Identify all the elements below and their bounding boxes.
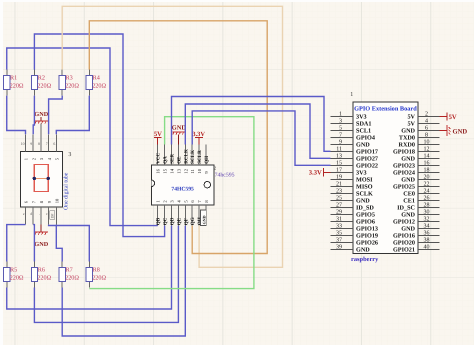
svg-text:3V3: 3V3 bbox=[356, 114, 367, 121]
svg-text:220Ω: 220Ω bbox=[92, 83, 106, 90]
svg-text:CE1: CE1 bbox=[403, 198, 415, 205]
wire R4 bottom to display pin5 (blue) bbox=[56, 96, 89, 135]
svg-text:QH: QH bbox=[204, 156, 210, 164]
svg-text:12: 12 bbox=[183, 168, 188, 173]
svg-text:GND: GND bbox=[356, 198, 370, 205]
svg-text:SCLK: SCLK bbox=[356, 191, 373, 198]
svg-text:QE: QE bbox=[176, 217, 182, 225]
GPIO pin 10 RXD0 bbox=[418, 143, 440, 145]
svg-text:MOSI: MOSI bbox=[356, 177, 373, 184]
GPIO pin 28 ID_SC bbox=[418, 206, 440, 208]
svg-text:QF: QF bbox=[183, 218, 189, 225]
svg-text:220Ω: 220Ω bbox=[65, 275, 79, 282]
GPIO pin 33 GPIO13 bbox=[331, 227, 354, 229]
svg-text:VCC: VCC bbox=[156, 152, 162, 163]
svg-text:1: 1 bbox=[350, 92, 353, 98]
GPIO pin 19 MOSI bbox=[331, 178, 354, 180]
svg-text:GPIO26: GPIO26 bbox=[356, 240, 378, 247]
svg-text:9: 9 bbox=[30, 142, 32, 146]
GPIO pin 37 GPIO26 bbox=[331, 241, 354, 243]
svg-text:GPIO19: GPIO19 bbox=[356, 233, 378, 240]
GPIO pin 1 3V3 bbox=[331, 115, 354, 117]
svg-text:GND: GND bbox=[401, 226, 415, 233]
svg-text:GND: GND bbox=[356, 247, 370, 254]
GPIO pin 25 GND bbox=[331, 199, 354, 201]
svg-text:29: 29 bbox=[336, 210, 342, 216]
svg-text:GPIO27: GPIO27 bbox=[356, 156, 378, 163]
svg-text:SCL1: SCL1 bbox=[356, 128, 371, 135]
GPIO pin 13 GPIO27 bbox=[331, 157, 354, 159]
svg-text:4: 4 bbox=[425, 119, 428, 125]
svg-text:GPIO16: GPIO16 bbox=[393, 233, 415, 240]
svg-text:26: 26 bbox=[424, 196, 430, 202]
svg-text:GND: GND bbox=[401, 128, 415, 135]
svg-text:21: 21 bbox=[336, 182, 342, 188]
svg-text:GPIO18: GPIO18 bbox=[393, 149, 415, 156]
svg-text:10: 10 bbox=[197, 168, 202, 173]
GPIO pin 22 GPIO25 bbox=[418, 185, 440, 187]
svg-text:30: 30 bbox=[424, 210, 430, 216]
svg-text:5V: 5V bbox=[407, 114, 415, 121]
GPIO pin 14 GND bbox=[418, 157, 440, 159]
GPIO pin 3 SDA1 bbox=[331, 122, 354, 124]
svg-text:1: 1 bbox=[339, 112, 342, 118]
GPIO pin 17 3V3 bbox=[331, 171, 354, 173]
svg-text:19: 19 bbox=[336, 175, 342, 181]
svg-text:23: 23 bbox=[336, 189, 342, 195]
resistor R1 220ohm bbox=[4, 70, 24, 96]
svg-text:3: 3 bbox=[339, 119, 342, 125]
svg-text:R3: R3 bbox=[66, 75, 73, 82]
wire R1 to 595 QB (blue) bbox=[7, 48, 158, 226]
wire R4 to 595 QG (orange) bbox=[89, 21, 267, 254]
svg-text:10: 10 bbox=[55, 198, 60, 203]
svg-text:15: 15 bbox=[163, 168, 168, 173]
svg-text:R8: R8 bbox=[93, 266, 100, 273]
svg-text:10: 10 bbox=[424, 140, 430, 146]
svg-text:GPIO24: GPIO24 bbox=[393, 170, 415, 177]
svg-text:RCLK: RCLK bbox=[183, 149, 189, 164]
wire display pin9 to R8 (blue) bbox=[49, 225, 90, 262]
GPIO pin 7 GPIO4 bbox=[331, 136, 354, 138]
svg-text:20: 20 bbox=[424, 175, 430, 181]
GPIO pin 26 CE1 bbox=[418, 199, 440, 201]
svg-text:OE: OE bbox=[176, 156, 182, 164]
GPIO pin 15 GPIO22 bbox=[331, 164, 354, 166]
GPIO pin 39 GND bbox=[331, 248, 354, 250]
GPIO pin 12 GPIO18 bbox=[418, 150, 440, 152]
svg-text:3: 3 bbox=[68, 152, 71, 158]
svg-text:7: 7 bbox=[339, 133, 342, 139]
svg-text:11: 11 bbox=[336, 147, 342, 153]
GPIO pin 23 SCLK bbox=[331, 192, 354, 194]
GPIO pin 30 GND bbox=[418, 213, 440, 215]
svg-text:13: 13 bbox=[176, 168, 181, 173]
svg-text:.: . bbox=[39, 212, 40, 216]
GPIO pin 27 ID_SD bbox=[331, 206, 354, 208]
svg-text:GND: GND bbox=[401, 156, 415, 163]
svg-text:GPIO23: GPIO23 bbox=[393, 163, 415, 170]
svg-text:220Ω: 220Ω bbox=[37, 275, 51, 282]
resistor R3 220ohm bbox=[59, 70, 79, 96]
svg-text:28: 28 bbox=[424, 203, 430, 209]
svg-text:GPIO4: GPIO4 bbox=[356, 135, 375, 142]
GPIO pin 11 GPIO17 bbox=[331, 150, 354, 152]
wire R3 bottom to display pin4 (blue) bbox=[49, 96, 63, 135]
GPIO pin 36 GPIO16 bbox=[418, 234, 440, 236]
power 3.3V (595 SCLR pin10) bbox=[192, 131, 205, 145]
svg-text:QA: QA bbox=[163, 156, 169, 164]
svg-text:GND: GND bbox=[172, 125, 187, 132]
svg-text:13: 13 bbox=[336, 154, 342, 160]
svg-text:ID_SD: ID_SD bbox=[356, 205, 374, 212]
svg-text:31: 31 bbox=[336, 217, 342, 223]
GPIO pin 24 CE0 bbox=[418, 192, 440, 194]
GPIO pin 21 MISO bbox=[331, 185, 354, 187]
svg-text:ID_SC: ID_SC bbox=[397, 205, 415, 212]
svg-text:GND: GND bbox=[356, 142, 370, 149]
svg-text:7: 7 bbox=[46, 142, 48, 146]
GPIO pin 9 GND bbox=[331, 143, 354, 145]
svg-text:5: 5 bbox=[339, 126, 342, 132]
svg-text:33: 33 bbox=[336, 224, 342, 230]
svg-text:SER: SER bbox=[170, 154, 176, 164]
svg-text:5V: 5V bbox=[407, 121, 415, 128]
ground GND (GPIO pin6) bbox=[440, 125, 468, 136]
svg-text:RXD0: RXD0 bbox=[399, 142, 416, 149]
svg-text:SCLR: SCLR bbox=[197, 150, 203, 164]
svg-text:11: 11 bbox=[190, 168, 195, 173]
svg-text:220Ω: 220Ω bbox=[65, 83, 79, 90]
svg-text:SDA1: SDA1 bbox=[356, 121, 371, 128]
GPIO pin 20 GND bbox=[418, 178, 440, 180]
GPIO pin 29 GPIO5 bbox=[331, 213, 354, 215]
svg-text:15: 15 bbox=[336, 161, 342, 167]
svg-text:GPIO17: GPIO17 bbox=[356, 149, 378, 156]
wire display pin7 to R6 (blue) bbox=[33, 225, 34, 262]
wire 595 RCLK to GPIO27 pin13 (blue) bbox=[185, 104, 330, 158]
resistor R5 220ohm bbox=[4, 262, 24, 288]
resistor R2 220ohm bbox=[31, 70, 51, 96]
svg-text:3.3V: 3.3V bbox=[309, 170, 322, 177]
svg-text:34: 34 bbox=[424, 224, 430, 230]
resistor R7 220ohm bbox=[59, 262, 79, 288]
svg-text:One digital tube: One digital tube bbox=[62, 172, 69, 210]
wire display pin10 to R7 (blue) bbox=[56, 225, 62, 262]
svg-text:25: 25 bbox=[336, 196, 342, 202]
resistor R8 220ohm bbox=[86, 262, 106, 288]
svg-text:GND: GND bbox=[201, 215, 206, 224]
svg-text:10: 10 bbox=[21, 142, 25, 146]
svg-text:2: 2 bbox=[425, 112, 428, 118]
wire R7 to 595 QF (blue) bbox=[62, 226, 185, 336]
svg-text:39: 39 bbox=[336, 245, 342, 251]
wire 595 SCLK to GPIO22 pin15 (blue) bbox=[192, 111, 330, 165]
svg-text:R1: R1 bbox=[10, 75, 17, 82]
wire R8 to 595 QA (green) bbox=[89, 117, 254, 289]
svg-text:QC: QC bbox=[163, 217, 169, 225]
svg-text:GND: GND bbox=[401, 212, 415, 219]
svg-text:74HC595: 74HC595 bbox=[171, 186, 194, 192]
svg-text:GND: GND bbox=[453, 128, 468, 135]
svg-text:SCLK: SCLK bbox=[190, 150, 196, 164]
svg-text:17: 17 bbox=[336, 168, 342, 174]
svg-text:5V: 5V bbox=[449, 114, 457, 121]
wire R5 to 595 QD (blue) bbox=[7, 226, 172, 309]
svg-text:GPIO20: GPIO20 bbox=[393, 240, 415, 247]
svg-text:36: 36 bbox=[424, 231, 430, 237]
GPIO pin 32 GPIO12 bbox=[418, 220, 440, 222]
svg-text:GPIO21: GPIO21 bbox=[393, 247, 415, 254]
svg-text:GPIO6: GPIO6 bbox=[356, 219, 375, 226]
GPIO pin 4 5V bbox=[418, 122, 440, 124]
svg-text:22: 22 bbox=[424, 182, 430, 188]
svg-text:220Ω: 220Ω bbox=[92, 275, 106, 282]
svg-text:9: 9 bbox=[339, 140, 342, 146]
ground GND (595 OE pin13) bbox=[172, 125, 187, 145]
wire 595 SER to GPIO17 pin11 (blue) bbox=[172, 97, 331, 152]
svg-text:GND: GND bbox=[34, 111, 48, 118]
resistor R6 220ohm bbox=[31, 262, 51, 288]
svg-text:GND: GND bbox=[401, 177, 415, 184]
svg-text:GPIO5: GPIO5 bbox=[356, 212, 375, 219]
svg-text:8: 8 bbox=[425, 133, 428, 139]
svg-text:16: 16 bbox=[156, 168, 161, 173]
svg-text:3.3V: 3.3V bbox=[192, 131, 205, 138]
svg-text:GPIO12: GPIO12 bbox=[393, 219, 415, 226]
7-segment display DS1 One digital tube bbox=[20, 134, 71, 224]
GPIO pin 6 GND bbox=[418, 129, 440, 131]
svg-text:220Ω: 220Ω bbox=[10, 275, 24, 282]
GPIO pin 40 GPIO21 bbox=[418, 248, 440, 250]
svg-text:R7: R7 bbox=[66, 266, 73, 273]
GPIO Extension Board (raspberry) bbox=[331, 102, 440, 263]
svg-text:18: 18 bbox=[424, 168, 430, 174]
GPIO pin 2 5V bbox=[418, 115, 440, 117]
power 5V (595 VCC pin16) bbox=[154, 131, 162, 145]
svg-text:220Ω: 220Ω bbox=[10, 83, 24, 90]
svg-text:37: 37 bbox=[336, 238, 342, 244]
GPIO pin 38 GPIO20 bbox=[418, 241, 440, 243]
svg-text:GPIO22: GPIO22 bbox=[356, 163, 378, 170]
ground GND (display bottom pin3) bbox=[34, 225, 48, 248]
svg-text:QD: QD bbox=[170, 217, 176, 225]
svg-text:QB: QB bbox=[156, 217, 162, 225]
svg-text:GND: GND bbox=[34, 241, 48, 248]
svg-text:24: 24 bbox=[424, 189, 430, 195]
wire R2 to 595 QC (blue) bbox=[34, 34, 164, 237]
svg-text:R4: R4 bbox=[93, 75, 100, 82]
svg-text:R6: R6 bbox=[38, 266, 45, 273]
svg-text:12: 12 bbox=[424, 147, 430, 153]
wire R6 to 595 QE (blue) bbox=[34, 226, 178, 323]
power 3.3V (GPIO pin17) bbox=[309, 168, 331, 176]
GPIO pin 16 GPIO23 bbox=[418, 164, 440, 166]
resistor R4 220ohm bbox=[86, 70, 106, 96]
GPIO pin 18 GPIO24 bbox=[418, 171, 440, 173]
svg-text:6: 6 bbox=[425, 126, 428, 132]
wire R3 to 595 QH (pale orange) bbox=[62, 6, 282, 267]
svg-text:32: 32 bbox=[424, 217, 430, 223]
svg-text:16: 16 bbox=[424, 161, 430, 167]
wire R2 bottom to display pin2 (blue) bbox=[33, 96, 34, 135]
GPIO pin 8 TXD0 bbox=[418, 136, 440, 138]
svg-text:d: d bbox=[30, 212, 32, 216]
GPIO pin 31 GPIO6 bbox=[331, 220, 354, 222]
svg-text:38: 38 bbox=[424, 238, 430, 244]
svg-text:3V3: 3V3 bbox=[356, 170, 367, 177]
wire R1 bottom to display pin1 (blue) bbox=[7, 96, 26, 135]
svg-text:8: 8 bbox=[38, 142, 40, 146]
svg-text:GPIO25: GPIO25 bbox=[393, 184, 415, 191]
svg-text:CE0: CE0 bbox=[403, 191, 415, 198]
GPIO pin 34 GND bbox=[418, 227, 440, 229]
svg-text:raspberry: raspberry bbox=[351, 256, 379, 263]
svg-text:74hc595: 74hc595 bbox=[215, 172, 235, 179]
svg-text:5V: 5V bbox=[154, 131, 162, 138]
svg-text:DP: DP bbox=[51, 214, 55, 219]
svg-text:TXD0: TXD0 bbox=[399, 135, 415, 142]
svg-text:6: 6 bbox=[53, 142, 55, 146]
svg-text:27: 27 bbox=[336, 203, 342, 209]
svg-text:2: 2 bbox=[31, 158, 36, 160]
power 5V (GPIO pin2) bbox=[440, 112, 457, 121]
svg-text:14: 14 bbox=[170, 168, 175, 173]
svg-text:QG: QG bbox=[190, 217, 196, 225]
svg-text:MISO: MISO bbox=[356, 184, 373, 191]
svg-text:R5: R5 bbox=[10, 266, 17, 273]
svg-text:220Ω: 220Ω bbox=[37, 83, 51, 90]
svg-text:1: 1 bbox=[24, 158, 29, 160]
GPIO pin 35 GPIO19 bbox=[331, 234, 354, 236]
svg-text:35: 35 bbox=[336, 231, 342, 237]
svg-text:GPIO Extension Board: GPIO Extension Board bbox=[354, 105, 417, 112]
svg-text:R2: R2 bbox=[38, 75, 45, 82]
svg-text:GPIO13: GPIO13 bbox=[356, 226, 378, 233]
ground GND (display top pin3) bbox=[34, 111, 48, 134]
svg-text:40: 40 bbox=[424, 245, 430, 251]
IC U2 74HC595 bbox=[151, 145, 234, 226]
wire display pin6 to R5 (blue) bbox=[7, 225, 26, 262]
GPIO pin 5 SCL1 bbox=[331, 129, 354, 131]
svg-text:14: 14 bbox=[424, 154, 430, 160]
